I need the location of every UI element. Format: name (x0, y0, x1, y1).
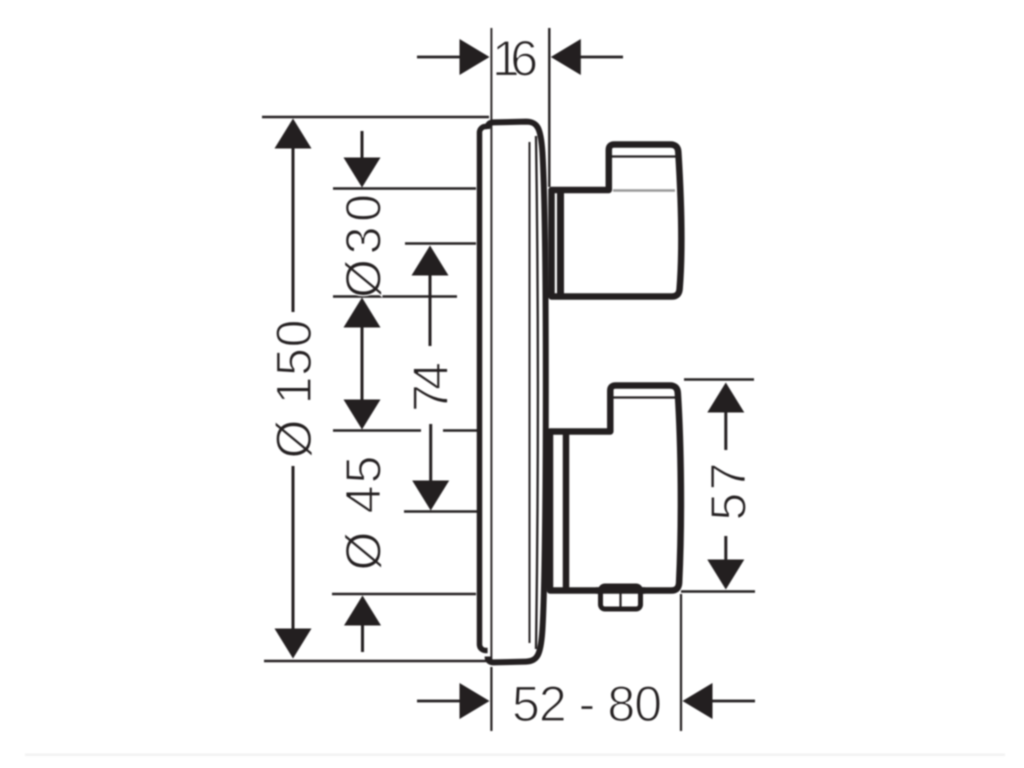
dimension line Ø30 upper tail (361, 131, 364, 160)
arrowhead 57 down (707, 560, 744, 590)
arrowhead 16 pointing right (460, 39, 490, 75)
arrowhead Ø45 up (344, 596, 381, 626)
dimension line Ø45 lower tail (361, 624, 364, 652)
escutcheon back plate (480, 127, 494, 651)
extension line 57 top (684, 378, 754, 380)
arrowhead 52-80 pointing right (460, 683, 490, 719)
arrowhead Ø150 up (275, 119, 312, 149)
arrowhead 57 up (707, 383, 744, 413)
dimension line Ø150 upper segment (292, 146, 295, 312)
lower handle tab divider (619, 590, 621, 608)
arrowhead Ø30 down (344, 158, 381, 188)
extension line 57 bottom (681, 590, 755, 592)
upper handle stem divider (557, 190, 564, 297)
escutcheon front face (487, 122, 546, 663)
svg-text:Ø30: Ø30 (336, 194, 392, 298)
upper handle gray parting line under cap (613, 189, 675, 192)
dimension line 74 upper tail (429, 274, 432, 346)
lower handle cap inner line (614, 396, 676, 398)
svg-text:16: 16 (492, 31, 538, 87)
dimension line 52-80 left tail (417, 700, 462, 703)
arrowhead Ø30 up (344, 298, 381, 328)
extension line 74 bottom (lower handle axis) (404, 510, 477, 512)
upper handle cap inner line (612, 155, 676, 157)
extension line 16 left (490, 28, 492, 120)
svg-text:52 - 80: 52 - 80 (512, 676, 662, 732)
lower handle bottom tab (601, 586, 641, 609)
arrowhead 16 pointing left (551, 39, 581, 75)
extension line 52-80 right (680, 594, 682, 731)
extension line Ø45 bottom (lower handle bottom) (332, 593, 476, 595)
svg-text:Ø 150: Ø 150 (266, 320, 322, 459)
arrowhead Ø150 down (275, 629, 312, 659)
dimension line 52-80 right tail (710, 700, 755, 703)
dimension line between Ø30 and Ø45 arrows (361, 325, 364, 402)
arrowhead Ø45 down (344, 400, 381, 430)
svg-text:74: 74 (403, 362, 459, 412)
dimension line 57 upper tail (724, 411, 727, 450)
extension line Ø30 bottom (upper handle bottom) (333, 295, 457, 297)
extension line bottom (plate bottom, Ø150 lower datum) (264, 660, 486, 662)
arrowhead 52-80 pointing left (683, 683, 713, 719)
dimension line 57 lower tail (724, 536, 727, 561)
dimension line 16 right tail (578, 56, 623, 59)
escutcheon inner contour line 2 (536, 136, 538, 649)
extension line top (plate top, Ø150 upper datum) (262, 116, 489, 118)
lower handle bottom edge over tab (596, 587, 645, 594)
lower handle stem divider (563, 432, 570, 591)
extension line Ø45 top (lower handle top) (333, 429, 421, 431)
dimension line 16 left tail (417, 56, 462, 59)
escutcheon front-left thin edge line (490, 123, 492, 661)
faint artifact line at bottom (25, 754, 1005, 757)
dimension line Ø150 lower segment (292, 466, 295, 630)
arrowhead 74 down (412, 481, 449, 511)
svg-text:Ø 45: Ø 45 (336, 456, 392, 571)
upper handle body with stem and cap (552, 145, 682, 297)
escutcheon inner contour line 1 (529, 142, 531, 643)
dimension line 74 lower tail (429, 424, 432, 482)
extension line 74 top (upper handle axis) (405, 242, 476, 244)
lower handle body with stem and cap (550, 386, 681, 591)
arrowhead 74 up (412, 246, 449, 276)
extension line 16 right (548, 28, 550, 187)
extension line 52-80 left (490, 667, 492, 731)
extension line Ø30 top (upper handle top) (333, 187, 476, 189)
